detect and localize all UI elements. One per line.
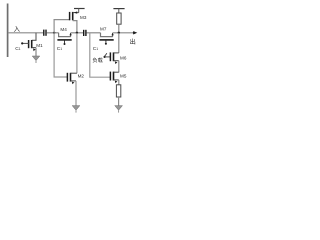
svg-text:入: 入 — [14, 26, 21, 33]
power tap T1 — [74, 9, 85, 13]
svg-text:M3: M3 — [80, 15, 87, 20]
svg-text:出: 出 — [130, 38, 136, 46]
wire M3 drain down to node B — [73, 21, 77, 33]
wire node A down to M2 gate — [54, 33, 67, 77]
node B junction dot — [76, 32, 78, 34]
capacitor C (input coupling) — [44, 30, 46, 36]
svg-text:M4: M4 — [60, 27, 67, 32]
left terminal line — [7, 4, 9, 58]
svg-text:M7: M7 — [100, 26, 107, 31]
transistor M6 — [110, 52, 118, 64]
ground (M1 source arrow) — [32, 48, 40, 63]
transistor M5 — [110, 72, 118, 84]
bias arrow tick — [105, 53, 107, 56]
transistor M1 — [29, 40, 36, 51]
transistor M7 (horizontal) — [99, 33, 113, 45]
node A junction dot — [53, 32, 55, 34]
wire M4 source to node B — [71, 32, 84, 34]
wire M1 drain branch — [32, 33, 36, 41]
node bias dot M6 — [104, 56, 106, 58]
svg-text:M5: M5 — [120, 73, 127, 78]
resistor R2 — [116, 85, 120, 106]
wire input horizontal — [8, 32, 43, 34]
svg-text:M2: M2 — [78, 74, 85, 79]
wire cap to node A — [47, 32, 59, 34]
node D junction dot — [118, 32, 120, 34]
transistor M2 — [67, 73, 77, 85]
wire M7 source to output node — [113, 32, 136, 34]
ground (right stage) — [115, 106, 123, 113]
wire node C down to M5 gate — [90, 33, 110, 77]
capacitor C (interstage coupling) — [84, 30, 86, 36]
svg-text:M1: M1 — [36, 43, 43, 48]
wire node D down to M6 drain — [118, 33, 120, 53]
output arrowhead — [133, 31, 137, 34]
svg-text:负载: 负载 — [92, 56, 102, 64]
transistor M3 — [70, 11, 79, 20]
svg-text:M6: M6 — [120, 55, 127, 60]
wire M6 gate lead — [105, 56, 111, 58]
wire M5 source to R2 — [118, 80, 120, 85]
power tap T2 — [113, 9, 124, 13]
wire node A up to M3 gate — [54, 20, 69, 33]
transistor M4 (horizontal) — [57, 33, 71, 45]
resistor R1 — [117, 13, 121, 33]
wire M6 source to M5 drain — [118, 61, 120, 73]
ground (first stage) — [72, 106, 80, 113]
wire M1 gate lead — [22, 42, 28, 44]
wire node B down to M2 drain — [76, 33, 78, 73]
wire cap2 to stage 2 — [87, 32, 101, 34]
node C1 bias dot — [21, 42, 23, 44]
wire M2 source down — [75, 81, 77, 106]
